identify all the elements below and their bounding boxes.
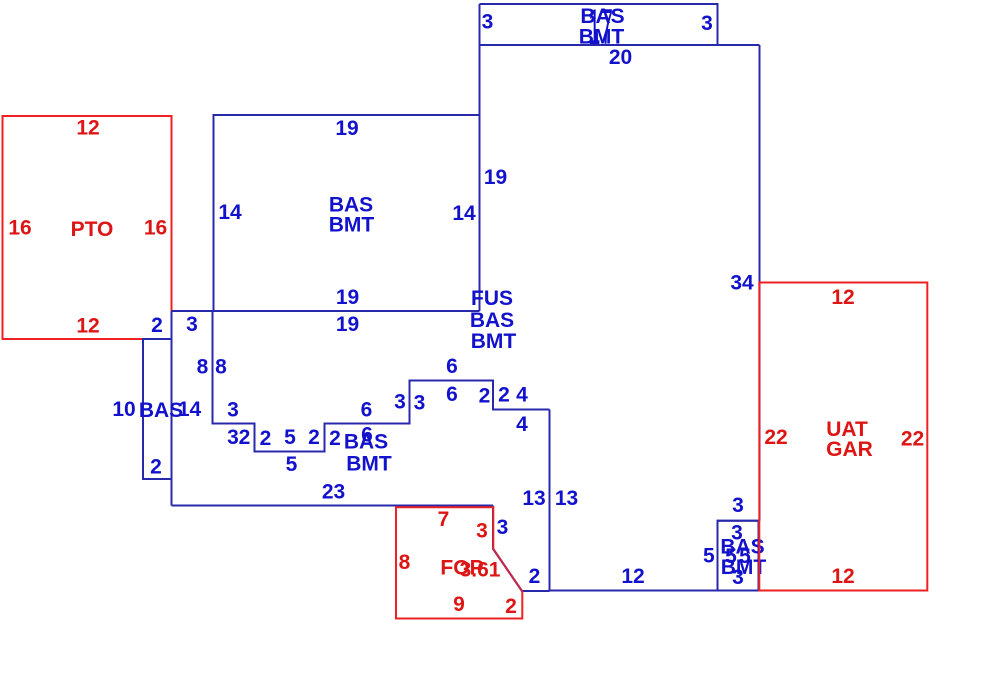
svg-text:14: 14 [178,398,202,421]
svg-text:2: 2 [308,426,320,449]
svg-text:34: 34 [730,272,754,295]
svg-text:3: 3 [476,520,488,543]
svg-text:6: 6 [361,399,373,422]
svg-text:10: 10 [112,398,135,421]
svg-text:5: 5 [286,453,298,476]
svg-text:16: 16 [8,217,31,240]
svg-text:12: 12 [831,565,854,588]
svg-text:8: 8 [197,356,209,379]
svg-text:14: 14 [218,201,242,224]
svg-text:7: 7 [438,508,450,531]
svg-text:6: 6 [446,383,458,406]
svg-text:BMT: BMT [346,453,392,476]
svg-text:GAR: GAR [826,438,873,461]
svg-text:13: 13 [522,487,545,510]
svg-text:20: 20 [609,46,632,69]
svg-text:12: 12 [76,117,99,140]
svg-text:3: 3 [186,313,198,336]
svg-text:2: 2 [150,456,162,479]
svg-text:4: 4 [516,413,528,436]
svg-text:6: 6 [446,355,458,378]
svg-text:8: 8 [399,551,411,574]
svg-text:8: 8 [215,356,227,379]
svg-text:2: 2 [260,427,272,450]
svg-text:22: 22 [764,426,787,449]
svg-text:3: 3 [394,391,406,414]
svg-text:3: 3 [227,399,239,422]
svg-text:19: 19 [336,286,359,309]
svg-text:22: 22 [901,428,924,451]
svg-text:2: 2 [498,384,510,407]
svg-text:14: 14 [452,202,476,225]
svg-text:3: 3 [227,426,239,449]
svg-text:5: 5 [703,545,715,568]
svg-text:BMT: BMT [329,214,375,237]
svg-text:2: 2 [329,427,341,450]
svg-text:2: 2 [151,314,163,337]
svg-text:19: 19 [336,313,359,336]
svg-text:12: 12 [621,565,644,588]
svg-text:3: 3 [732,566,744,589]
svg-text:12: 12 [831,286,854,309]
svg-text:BMT: BMT [471,330,517,353]
svg-text:23: 23 [322,481,345,504]
svg-text:3: 3 [732,494,744,517]
svg-text:5: 5 [284,426,296,449]
svg-text:19: 19 [484,166,507,189]
svg-text:PTO: PTO [71,218,114,241]
svg-text:2: 2 [479,385,491,408]
svg-text:2: 2 [239,426,251,449]
svg-text:19: 19 [335,117,358,140]
svg-text:BAS: BAS [139,399,183,422]
svg-text:3: 3 [414,392,426,415]
svg-text:13: 13 [555,487,578,510]
svg-text:BAS: BAS [470,309,514,332]
svg-text:16: 16 [144,217,167,240]
svg-text:2: 2 [529,565,541,588]
svg-text:FUS: FUS [471,287,513,310]
svg-text:9: 9 [453,593,465,616]
svg-text:3: 3 [701,12,713,35]
svg-text:4: 4 [516,384,528,407]
svg-text:3.61: 3.61 [460,559,501,582]
svg-text:3: 3 [482,11,494,34]
svg-text:2: 2 [505,595,517,618]
svg-text:3: 3 [497,516,509,539]
svg-text:12: 12 [76,315,99,338]
svg-text:BAS: BAS [344,431,388,454]
